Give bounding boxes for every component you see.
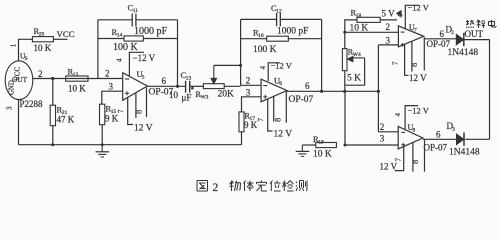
wire R14 to right <box>143 38 177 40</box>
U7 minus 12V label <box>408 2 430 12</box>
op-amp U8 <box>398 123 423 149</box>
svg-text:2: 2 <box>386 22 391 32</box>
R16 value 100 K <box>253 45 277 55</box>
U6 pin8 label <box>273 118 283 122</box>
svg-text:2: 2 <box>38 69 43 79</box>
U6 pin5 stub <box>285 92 287 123</box>
svg-text:5 V: 5 V <box>382 9 396 19</box>
svg-text:9 K: 9 K <box>105 113 119 123</box>
svg-text:3: 3 <box>109 82 114 92</box>
U6 plus sign <box>263 95 267 99</box>
wire Rw4 bottom <box>343 71 346 93</box>
U6 plus 12V label <box>274 130 293 140</box>
svg-text:8: 8 <box>273 118 283 122</box>
U5 OP-07 label <box>149 87 174 97</box>
U5 pin4 label <box>116 58 124 62</box>
node junction R21 tap <box>51 77 54 80</box>
svg-text:3: 3 <box>246 88 251 98</box>
U8 pin2 label <box>380 122 385 132</box>
U5 pin8 label <box>134 110 144 114</box>
svg-text:1000 pF: 1000 pF <box>277 27 308 37</box>
U5 plus 12V label <box>134 123 153 133</box>
wire U7 pin3 <box>378 44 398 46</box>
U6 pin4 label <box>259 66 267 70</box>
R13 value 10 K <box>68 84 86 94</box>
U7 pin3 label <box>386 35 391 45</box>
wire U6 pin3 <box>242 97 262 112</box>
svg-text:13: 13 <box>186 76 192 82</box>
Rw4 wiper wire <box>345 58 365 85</box>
U7 pin7 wire <box>405 44 409 75</box>
svg-text:10: 10 <box>169 90 179 100</box>
potentiometer Rw4 <box>342 47 361 70</box>
U7 pin4 wire <box>405 5 419 29</box>
U5 pin7 wire <box>128 98 133 125</box>
U8 minus 12V label <box>408 106 430 116</box>
wire C11 to right <box>136 19 178 21</box>
wire R15 to rail <box>101 125 104 146</box>
wire output right edge <box>489 40 491 140</box>
svg-text:P2288: P2288 <box>20 99 44 109</box>
svg-text:20K: 20K <box>218 89 235 99</box>
wire feedback2 left vertical <box>240 19 242 85</box>
U8 OP-07 label <box>424 142 448 152</box>
node output junction U5 <box>176 85 179 88</box>
U8 plus sign <box>401 143 405 147</box>
resistor R16 <box>253 27 288 41</box>
OUT label <box>465 29 484 39</box>
wire D3 to right edge <box>465 138 489 140</box>
svg-text:9: 9 <box>25 56 28 62</box>
wire U6 output <box>287 90 378 92</box>
svg-text:OUT: OUT <box>12 75 28 84</box>
wire left to R14 <box>98 38 124 40</box>
wire top to C11 <box>98 19 132 21</box>
svg-text:9 K: 9 K <box>244 120 258 130</box>
svg-text:4: 4 <box>394 113 402 117</box>
C12 value 1000 pF <box>277 27 308 37</box>
D2 value 1N4148 <box>448 48 479 58</box>
svg-text:6: 6 <box>279 81 282 87</box>
resistor R15 <box>100 104 117 125</box>
svg-text:2: 2 <box>451 30 454 36</box>
wire C13 to Rw3 <box>190 85 204 87</box>
svg-text:18: 18 <box>356 13 362 19</box>
op-amp U7 <box>398 23 423 47</box>
wire U8 pin3 <box>345 144 398 146</box>
svg-text:47 K: 47 K <box>57 114 75 124</box>
wire R21 to ground rail <box>51 126 54 147</box>
node signal junction <box>377 90 380 93</box>
node output junction U6 <box>320 90 323 93</box>
Rw3 value 20K <box>218 89 235 99</box>
sensor U9 body <box>5 61 33 100</box>
caption Figure 2 object positioning detection <box>197 181 307 195</box>
U5 minus 12V label <box>133 53 156 63</box>
U5 plus sign <box>125 91 129 95</box>
U8 pin7 wire <box>395 147 404 171</box>
U7 plus sign <box>401 43 405 47</box>
U6 pin6 label <box>305 81 310 91</box>
svg-text:−12 V: −12 V <box>408 2 430 12</box>
U6 pin2 label <box>246 76 251 86</box>
C11 value 1000 pF <box>134 26 168 37</box>
sensor GND label <box>9 80 16 95</box>
wire U8 pin2 <box>378 131 398 133</box>
R21 value 47 K <box>57 114 75 124</box>
svg-text:1N4148: 1N4148 <box>449 148 480 158</box>
svg-text:100 K: 100 K <box>113 42 139 53</box>
svg-text:12 V: 12 V <box>380 162 398 172</box>
svg-text:OUT: OUT <box>465 29 484 39</box>
Rw3 wiper arrow <box>211 65 217 84</box>
wire down to R21 <box>52 79 54 106</box>
svg-text:10 K: 10 K <box>313 149 332 159</box>
U7 plus 12V label <box>409 73 427 83</box>
U6 pin7 label <box>257 118 265 122</box>
svg-text:12 V: 12 V <box>134 123 153 133</box>
resistor R20 <box>32 26 53 42</box>
svg-text:100 K: 100 K <box>253 45 277 55</box>
resistor R18 <box>351 7 381 22</box>
U8 minus sign <box>401 131 405 133</box>
U8 plus 12V label <box>380 162 398 172</box>
capacitor C13 <box>181 70 194 93</box>
wire left to R16 <box>241 38 267 40</box>
wire sensor pin3 down <box>18 100 20 145</box>
wire U5 pin3 <box>102 91 123 104</box>
wire U5 output <box>147 85 185 87</box>
U7 minus sign <box>401 31 405 33</box>
svg-text:4: 4 <box>396 14 404 18</box>
U7 pin6 label <box>440 29 445 39</box>
R18 value 10 K <box>350 24 369 34</box>
svg-text:W3: W3 <box>200 94 208 100</box>
wire signal vertical <box>377 45 379 132</box>
wire node to R19 <box>344 91 347 146</box>
svg-text:8: 8 <box>410 160 420 164</box>
svg-text:4: 4 <box>116 58 124 62</box>
U6 pin4 wire <box>268 63 280 81</box>
svg-text:3: 3 <box>6 106 14 110</box>
U8 pin8 label <box>410 160 420 164</box>
U7 pin5 stub <box>423 37 425 70</box>
pin 2 label at sensor <box>38 69 43 79</box>
svg-text:3: 3 <box>452 127 455 133</box>
wire feedback right vertical <box>177 20 179 87</box>
svg-text:6: 6 <box>436 130 441 140</box>
svg-text:6: 6 <box>440 29 445 39</box>
U8 pin7 label <box>394 158 402 162</box>
svg-text:2: 2 <box>213 182 219 194</box>
U7 OP-07 label <box>427 39 451 49</box>
U5 pin7 label <box>117 109 125 113</box>
op-amp U5 <box>123 69 148 100</box>
Rw3 wiper top wire <box>214 64 242 67</box>
U6 minus sign <box>263 85 267 87</box>
svg-text:11: 11 <box>133 8 139 14</box>
wire U7 pin2 <box>345 31 399 33</box>
svg-text:1000 pF: 1000 pF <box>134 26 168 37</box>
wire feedback2 right vertical <box>321 19 323 91</box>
ground rail <box>19 144 242 146</box>
svg-text:1: 1 <box>10 43 18 47</box>
svg-text:13: 13 <box>73 72 79 78</box>
5 V label <box>382 9 396 19</box>
wire U7 output <box>424 38 457 40</box>
U7 pin7 label <box>391 61 399 65</box>
svg-text:μF: μF <box>182 92 192 102</box>
U8 pin3 label <box>380 133 385 143</box>
svg-text:2: 2 <box>380 122 385 132</box>
U8 pin4 label <box>394 113 402 117</box>
svg-text:2: 2 <box>246 76 251 86</box>
svg-text:2: 2 <box>105 69 110 79</box>
U6 pin7 wire <box>268 99 273 131</box>
svg-text:3: 3 <box>386 35 391 45</box>
wire C12 to right <box>280 18 321 20</box>
svg-text:7: 7 <box>391 61 399 65</box>
svg-text:−12 V: −12 V <box>271 60 293 70</box>
U6 minus 12V label <box>271 60 293 70</box>
svg-text:−12 V: −12 V <box>133 53 156 63</box>
U7 pin8 label <box>409 63 419 67</box>
U9 label <box>20 52 28 63</box>
U6 OP-07 label <box>289 95 314 105</box>
potentiometer Rw3 <box>196 84 225 101</box>
svg-text:OP-07: OP-07 <box>289 95 314 105</box>
resistor R17 <box>239 111 255 132</box>
wire feedback left vertical <box>97 20 99 79</box>
svg-text:19: 19 <box>318 140 324 146</box>
pin 1 label <box>10 43 18 47</box>
U7 pin4 label <box>396 14 404 18</box>
svg-text:7: 7 <box>414 28 417 34</box>
op-amp U6 <box>261 75 287 102</box>
wire Rw3 to U6 node <box>224 85 240 87</box>
resistor R21 <box>50 105 67 126</box>
U5 pin4 wire <box>129 52 144 76</box>
svg-text:VCC: VCC <box>57 29 75 39</box>
wire D2 to OUT <box>464 39 490 41</box>
svg-text:5 K: 5 K <box>347 73 361 83</box>
R17 value 9 K <box>244 120 258 130</box>
wire R17 to rail <box>241 132 243 145</box>
sensor VCC label <box>15 67 22 81</box>
U5 pin5 stub <box>146 88 148 118</box>
5V arrow <box>397 11 402 16</box>
U5 pin8 stub <box>135 93 137 118</box>
svg-text:10 K: 10 K <box>34 43 52 53</box>
U5 minus sign <box>125 78 129 80</box>
svg-text:8: 8 <box>134 110 144 114</box>
svg-text:−12 V: −12 V <box>408 106 430 116</box>
wire R16 to right <box>288 38 321 40</box>
pin 3 label <box>6 106 14 110</box>
ground symbol main <box>96 145 110 157</box>
U5 pin2 label <box>105 69 110 79</box>
R15 value 9 K <box>105 113 119 123</box>
VCC label <box>57 29 75 39</box>
wire R20 to VCC <box>53 38 67 40</box>
P2288 label <box>20 99 44 109</box>
sensor OUT label <box>12 75 28 84</box>
svg-text:8: 8 <box>409 63 419 67</box>
wire top to C12 <box>241 18 277 20</box>
D3 value 1N4148 <box>449 148 480 158</box>
resistor R14 <box>112 27 144 41</box>
svg-text:12 V: 12 V <box>409 73 427 83</box>
svg-text:1N4148: 1N4148 <box>448 48 479 58</box>
Rw4 wiper arrow <box>347 56 364 62</box>
wire R19 left <box>302 144 316 146</box>
wire sensor pin2 to U5 <box>33 78 123 80</box>
ground symbol R19 <box>296 145 310 156</box>
resistor R13 <box>66 67 88 82</box>
wire R18 right to 5V <box>380 19 397 21</box>
svg-text:4: 4 <box>259 66 267 70</box>
wire R18 left corner <box>345 20 357 49</box>
R20 value 10 K <box>34 43 52 53</box>
U8 pin4 wire <box>405 106 418 130</box>
U8 pin8 stub <box>412 143 414 172</box>
wire U8 output <box>423 138 457 140</box>
svg-text:W4: W4 <box>353 52 361 58</box>
svg-text:5: 5 <box>142 75 145 81</box>
svg-text:7: 7 <box>257 118 265 122</box>
U6 pin3 label <box>246 88 251 98</box>
svg-text:16: 16 <box>258 33 264 39</box>
capacitor C11 <box>128 3 139 27</box>
svg-text:12: 12 <box>276 9 282 15</box>
wire sensor pin1 to R20 <box>19 39 33 61</box>
node U7 pin2 tap <box>343 31 346 34</box>
U6 pin8 stub <box>273 96 275 122</box>
svg-text:8: 8 <box>412 127 415 133</box>
R19 value 10 K <box>313 149 332 159</box>
svg-text:10 K: 10 K <box>68 84 86 94</box>
diode D3 <box>447 121 465 146</box>
svg-text:12 V: 12 V <box>274 130 293 140</box>
C13 value 10 uF <box>169 90 191 103</box>
capacitor C12 <box>271 3 282 26</box>
resistor R19 <box>313 134 336 147</box>
wire U6 pin2 <box>241 84 262 86</box>
U5 pin6 label <box>162 76 167 86</box>
svg-text:20: 20 <box>39 32 45 38</box>
U8 pin5 stub <box>424 140 426 172</box>
U7 pin8 stub <box>411 41 413 71</box>
svg-text:3: 3 <box>380 133 385 143</box>
svg-text:OP-07: OP-07 <box>424 142 448 152</box>
U8 pin6 label <box>436 130 441 140</box>
U7 pin2 label <box>386 22 391 32</box>
svg-text:6: 6 <box>162 76 167 86</box>
svg-text:7: 7 <box>117 109 125 113</box>
R14 value 100 K <box>113 42 139 53</box>
Rw4 value 5 K <box>347 73 361 83</box>
label re-shi-dian OUT heading <box>466 20 496 28</box>
svg-text:14: 14 <box>117 33 123 39</box>
U5 pin3 label <box>109 82 114 92</box>
diode D2 <box>446 24 464 46</box>
svg-text:6: 6 <box>305 81 310 91</box>
